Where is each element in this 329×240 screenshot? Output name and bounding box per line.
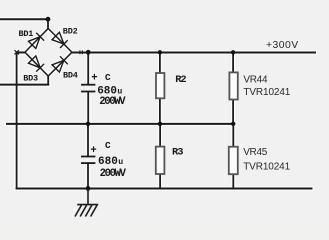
varistor VR44 body	[229, 72, 237, 99]
wire: middle rail	[7, 123, 233, 125]
svg-text:+: +	[91, 73, 97, 85]
wire: VR45 top lead	[232, 124, 234, 147]
wire: R3 bottom lead	[159, 174, 161, 188]
bridge rectifier diamond outline	[25, 29, 72, 77]
wire: left vertical drop to bottom rail	[16, 52, 18, 188]
svg-text:R2: R2	[175, 74, 186, 86]
svg-text:680u: 680u	[98, 156, 123, 168]
diode BD4 (bottom vertex to right vertex)	[52, 56, 68, 72]
junction dot R2/R3 on middle rail	[158, 122, 162, 126]
svg-text:TVR10241: TVR10241	[243, 162, 290, 173]
junction dot C1 top on +300V rail	[86, 50, 91, 55]
svg-text:200WV: 200WV	[99, 96, 126, 108]
wire: riser from AC rail to bridge top vertex	[47, 19, 49, 28]
wire: capacitor C2 branch upper	[87, 124, 89, 157]
svg-text:200WV: 200WV	[100, 168, 127, 180]
wire: riser from AC line to bridge bottom vertex	[47, 76, 49, 85]
wire: VR44 bottom lead	[232, 100, 234, 124]
junction dot C1/C2 on middle rail	[86, 122, 90, 126]
junction dot R2 top on +300V rail	[158, 50, 162, 54]
wire: VR45 bottom lead	[232, 174, 234, 188]
wire: capacitor C1 branch upper	[87, 52, 89, 84]
wire: R2 top lead	[159, 52, 161, 73]
wire: bottom ground rail	[17, 188, 312, 190]
svg-text:R3: R3	[172, 147, 183, 159]
junction dot VR44 top on +300V rail	[231, 50, 235, 54]
svg-text:BD4: BD4	[63, 70, 78, 80]
capacitor C1 plates	[81, 85, 95, 92]
junction dot VR44/VR45 on middle rail	[231, 122, 235, 126]
diode BD3 (left vertex to bottom vertex)	[28, 56, 44, 72]
wire: AC input line lower horizontal	[0, 84, 48, 86]
wire: bridge right vertex to +300V rail	[72, 51, 315, 53]
wire: capacitor C2 branch lower	[87, 163, 89, 188]
diode BD1 (left vertex to top vertex)	[28, 33, 44, 49]
svg-text:TVR10241: TVR10241	[243, 87, 290, 98]
diode BD2 (top vertex to right vertex)	[52, 32, 68, 48]
small x mark at left corner junction	[15, 50, 19, 54]
wire: AC input rail top-left	[0, 18, 48, 20]
wire: R3 top lead	[159, 124, 161, 147]
wire: bridge left vertex to left drop corner	[17, 51, 25, 53]
capacitor C2 plates	[81, 157, 95, 164]
svg-text:VR44: VR44	[243, 75, 268, 86]
tick marks on DC+ wire after bridge right vertex	[80, 50, 82, 54]
svg-text:+300V: +300V	[266, 40, 299, 51]
junction dot ground on bottom rail	[86, 186, 91, 191]
scan white halo under strokes	[0, 19, 315, 188]
svg-text:+: +	[90, 145, 96, 157]
svg-text:C: C	[105, 140, 111, 151]
svg-text:BD1: BD1	[19, 29, 34, 39]
varistor VR45 body	[229, 147, 238, 175]
resistor R2 body	[156, 73, 164, 98]
svg-text:C: C	[105, 72, 111, 83]
ground symbol	[75, 188, 98, 216]
svg-text:BD2: BD2	[63, 27, 78, 37]
svg-text:VR45: VR45	[243, 147, 268, 158]
wire: capacitor C1 branch lower	[87, 92, 89, 124]
resistor R3 body	[156, 147, 165, 174]
junction dot at AC rail / bridge top	[46, 17, 51, 22]
wire: R2 bottom lead	[159, 98, 161, 124]
wire: VR44 top lead	[232, 52, 234, 72]
svg-text:BD3: BD3	[23, 73, 38, 83]
